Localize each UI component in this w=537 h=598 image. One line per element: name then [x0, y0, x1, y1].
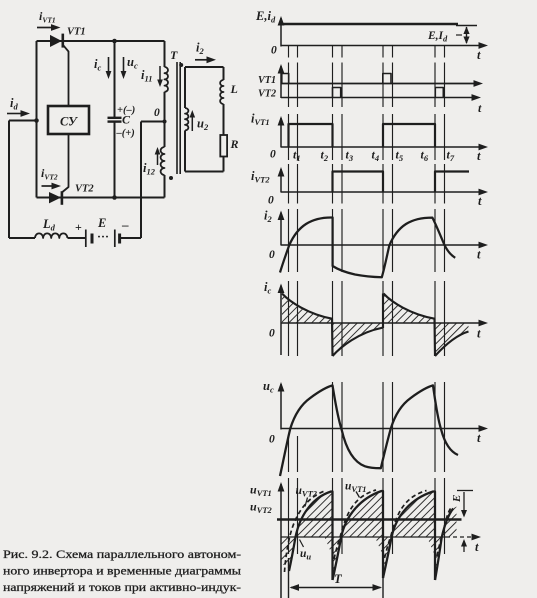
svg-text:R: R: [230, 137, 239, 151]
svg-text:L: L: [230, 82, 238, 96]
svg-text:напряжений и токов при активно: напряжений и токов при активно-индук-: [3, 580, 241, 594]
svg-text:E: E: [451, 495, 463, 503]
svg-text:0: 0: [270, 149, 276, 161]
svg-text:T: T: [170, 48, 178, 62]
svg-text:+: +: [75, 220, 82, 234]
svg-text:t: t: [477, 248, 481, 262]
svg-text:VT1: VT1: [67, 27, 86, 38]
svg-text:ного инвертора и временные диа: ного инвертора и временные диаграммы: [3, 564, 241, 578]
svg-text:0: 0: [269, 434, 275, 446]
svg-text:–: –: [121, 217, 129, 232]
svg-text:t: t: [475, 540, 479, 554]
svg-text:t: t: [477, 431, 481, 445]
svg-text:E: E: [97, 216, 106, 230]
svg-text:0: 0: [271, 45, 277, 57]
svg-text:0: 0: [269, 328, 275, 340]
svg-text:t: t: [478, 194, 482, 208]
svg-text:t: t: [477, 149, 481, 163]
svg-text:C: C: [122, 113, 131, 127]
svg-text:VT2: VT2: [75, 184, 94, 195]
svg-text:0: 0: [154, 107, 160, 119]
svg-text:0: 0: [268, 195, 274, 207]
svg-text:···: ···: [97, 230, 109, 244]
svg-text:0: 0: [269, 249, 275, 261]
svg-text:VT2: VT2: [258, 89, 276, 100]
svg-text:VT1: VT1: [258, 75, 276, 86]
svg-text:t: t: [477, 48, 481, 62]
svg-text:Рис. 9.2. Схема параллельного: Рис. 9.2. Схема параллельного автоном-: [3, 547, 241, 561]
svg-text:СУ: СУ: [60, 115, 78, 129]
svg-text:t: t: [477, 327, 481, 341]
svg-text:–(+): –(+): [116, 128, 135, 139]
